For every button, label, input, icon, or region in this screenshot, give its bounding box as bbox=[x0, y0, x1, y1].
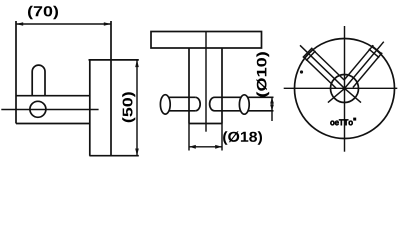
dim label (O10) rotated bbox=[256, 52, 269, 97]
right peg axis bbox=[343, 42, 384, 90]
right peg lower side bbox=[353, 53, 382, 88]
horizontal centerline bbox=[1, 109, 98, 111]
logo trademark block bbox=[353, 118, 356, 121]
dimension line (O10) bbox=[271, 97, 273, 121]
arrow bottom of (50) bbox=[135, 149, 139, 156]
right peg inner cap bbox=[369, 49, 379, 58]
dim label (50) rotated bbox=[122, 92, 135, 122]
stem left edge bbox=[188, 48, 190, 124]
down-right spoke bbox=[345, 88, 361, 102]
wall plate left edge bbox=[89, 60, 91, 156]
left peg body bbox=[166, 96, 196, 98]
left peg rounded cap bbox=[195, 97, 200, 111]
stem right edge bbox=[221, 48, 223, 124]
arrow left of (O18) bbox=[189, 145, 196, 149]
vertical centerline bbox=[344, 26, 346, 152]
horizontal centerline bbox=[284, 87, 398, 89]
arrow top of (50) bbox=[135, 60, 139, 67]
arrow left of (70) bbox=[16, 22, 23, 26]
dimension line (70) bbox=[16, 23, 111, 25]
dim label (O18) bbox=[223, 131, 262, 144]
arrow top of (O10) bbox=[270, 97, 274, 103]
top bar bbox=[151, 32, 262, 49]
left peg outer cap bbox=[303, 48, 313, 58]
arm bottom edge bbox=[16, 123, 90, 125]
right peg end disc bbox=[239, 95, 249, 114]
small dot bbox=[300, 70, 303, 73]
down-left spoke bbox=[328, 88, 345, 102]
left peg end disc bbox=[160, 95, 170, 114]
post with rounded top bbox=[32, 65, 45, 96]
right peg body + extension lines bbox=[215, 96, 274, 98]
mounting plate circle bbox=[295, 39, 395, 139]
left peg upper side bbox=[312, 49, 345, 81]
arm top edge bbox=[16, 95, 90, 97]
plate top edge extended bbox=[89, 59, 139, 61]
arrow right of (O18) bbox=[215, 145, 222, 149]
extension lines (O18) bbox=[188, 124, 190, 151]
right peg upper side bbox=[344, 45, 373, 80]
wall plate right edge / (70) extension bbox=[110, 21, 112, 156]
dimension line (O18) bbox=[189, 146, 222, 148]
inner boss circle bbox=[331, 75, 359, 103]
logo text bbox=[330, 119, 353, 125]
left peg axis bbox=[300, 45, 346, 90]
screw hole circle bbox=[30, 101, 46, 117]
vertical centerline of stem bbox=[205, 32, 207, 132]
hook front edge / extension line bbox=[15, 21, 17, 124]
arrow right of (70) bbox=[104, 22, 111, 26]
right peg rounded cap bbox=[210, 97, 215, 111]
left peg lower side bbox=[304, 57, 337, 89]
stem bottom edge bbox=[189, 123, 222, 125]
arrow bottom of (O10) bbox=[270, 105, 274, 111]
left peg inner cap bbox=[306, 51, 315, 61]
dimension line (50) bbox=[136, 60, 138, 156]
plate bottom edge extended bbox=[89, 155, 138, 157]
right peg outer cap bbox=[372, 46, 382, 55]
dim label (70) bbox=[28, 6, 58, 20]
